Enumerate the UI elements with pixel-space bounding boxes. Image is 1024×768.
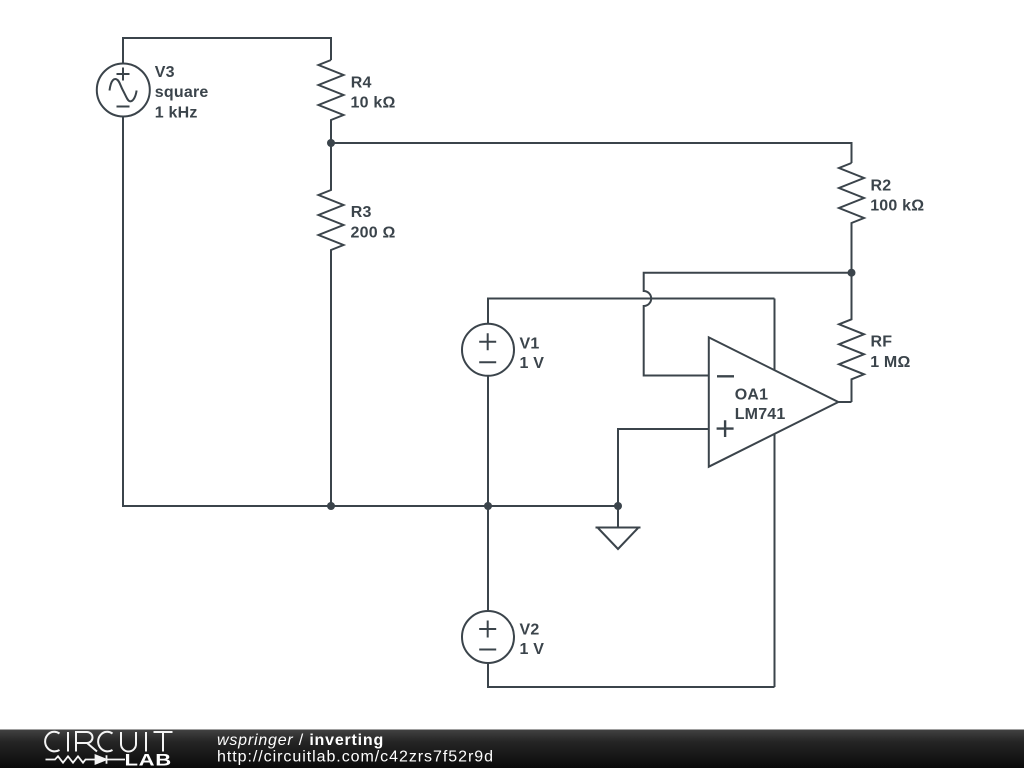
voltage source V2 — [462, 611, 514, 663]
svg-text:R3: R3 — [351, 204, 372, 221]
voltage source V1 — [462, 324, 514, 376]
CircuitLab logo resistor-diode glyph — [46, 755, 126, 763]
svg-text:1 MΩ: 1 MΩ — [870, 354, 910, 371]
wire top from V3 to R4 — [123, 38, 331, 64]
svg-text:square: square — [155, 84, 209, 101]
op-amp OA1 triangle — [709, 337, 839, 466]
svg-text:10 kΩ: 10 kΩ — [351, 95, 396, 112]
resistor R4 — [319, 60, 344, 143]
svg-text:1 kHz: 1 kHz — [155, 104, 198, 121]
svg-text:V1: V1 — [520, 336, 540, 353]
feedback wire from R2/RF node to op-amp inverting input (with hop) — [644, 273, 852, 376]
junction node below R4 — [327, 139, 335, 147]
wire V1 bottom through node to V2 top — [487, 376, 489, 611]
CircuitLab logo LAB text — [125, 751, 172, 768]
svg-text:http://circuitlab.com/c42zrs7f: http://circuitlab.com/c42zrs7f52r9d — [217, 749, 494, 766]
op-amp non-inverting input pin glyph — [717, 420, 734, 437]
wire ground node up to op-amp non-inverting input — [618, 429, 709, 506]
wire right vertical (behind op-amp) — [774, 299, 776, 688]
svg-text:1 V: 1 V — [520, 355, 545, 372]
wire bottom loop — [488, 663, 775, 687]
junction node R3 bottom rail — [327, 502, 335, 510]
svg-text:1 V: 1 V — [520, 641, 545, 658]
junction node V1/V2 rail — [484, 502, 492, 510]
svg-text:V3: V3 — [155, 64, 175, 81]
wire V3 bottom to bottom-left corner — [123, 116, 618, 506]
svg-text:R4: R4 — [351, 75, 372, 92]
svg-text:wspringer / inverting: wspringer / inverting — [217, 732, 384, 749]
wire node A to R2 (horizontal y=143) — [331, 143, 852, 163]
junction node ground rail — [614, 502, 622, 510]
voltage source V3 (square function generator) — [97, 64, 150, 117]
svg-text:100 kΩ: 100 kΩ — [870, 198, 924, 215]
wire op-amp output to RF — [838, 401, 851, 403]
ground symbol — [596, 506, 641, 549]
resistor R2 — [839, 163, 864, 273]
CircuitLab logo CIRCUIT text — [45, 732, 172, 752]
svg-text:200 Ω: 200 Ω — [351, 225, 396, 242]
svg-text:LAB: LAB — [125, 751, 172, 768]
op-amp inverting input pin glyph — [717, 375, 734, 377]
junction node R2/RF feedback — [848, 269, 856, 277]
svg-text:LM741: LM741 — [735, 406, 786, 423]
svg-text:RF: RF — [871, 334, 893, 351]
svg-text:OA1: OA1 — [735, 386, 769, 403]
resistor R3 — [319, 143, 344, 506]
wire V1 top to right vertical — [488, 299, 775, 324]
svg-text:R2: R2 — [871, 178, 892, 195]
svg-text:V2: V2 — [520, 622, 540, 639]
resistor RF — [839, 273, 864, 402]
